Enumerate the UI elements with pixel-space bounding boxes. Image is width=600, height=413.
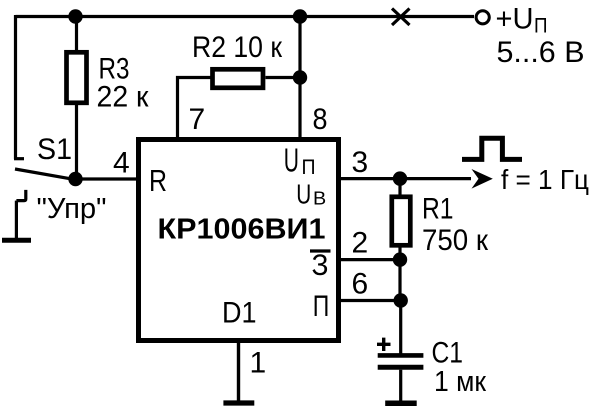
label Uv pin name (296, 179, 326, 210)
ground (switch) (2, 238, 31, 243)
svg-text:S1: S1 (37, 133, 72, 166)
wire pin 2 (340, 258, 400, 261)
label S1 (37, 133, 72, 166)
terminal circle +Un (476, 11, 489, 24)
svg-text:"Упр": "Упр" (37, 193, 107, 225)
label Z-bar pin name (310, 249, 331, 282)
label +Un (496, 3, 548, 38)
node junction pin2 / R1 (393, 252, 407, 266)
svg-text:КР1006ВИ1: КР1006ВИ1 (158, 214, 326, 246)
pin number 1 (250, 346, 267, 379)
svg-text:750 к: 750 к (422, 224, 489, 257)
pin number 6 (352, 268, 369, 301)
svg-text:U: U (296, 179, 311, 210)
pin number 2 (352, 227, 369, 260)
node junction switch / R3 / pin4 (68, 172, 82, 186)
wire pin 7 (178, 78, 212, 140)
svg-text:R2 10 к: R2 10 к (192, 31, 283, 64)
svg-text:R1: R1 (422, 193, 454, 226)
svg-text:В: В (313, 189, 326, 209)
svg-text:4: 4 (113, 147, 130, 180)
svg-text:П: П (313, 290, 330, 323)
label Un pin name (284, 142, 316, 179)
wire pin 3 output (340, 177, 471, 180)
svg-text:C1: C1 (432, 337, 464, 370)
pin number 7 (189, 103, 206, 136)
label KR1006VI1 (158, 214, 326, 246)
label C1 value (432, 337, 487, 399)
svg-text:6: 6 (352, 268, 369, 301)
label R3 value (97, 52, 150, 113)
svg-text:U: U (284, 142, 299, 179)
label "Upr" (37, 193, 107, 225)
svg-text:+U: +U (496, 3, 534, 36)
label P pin name (313, 290, 330, 323)
svg-text:5...6 В: 5...6 В (497, 36, 585, 69)
wire pin 8 (298, 17, 301, 140)
wire R1 to C1 bus (398, 260, 402, 354)
label R2 value (192, 31, 283, 64)
svg-text:1 мк: 1 мк (434, 366, 486, 398)
svg-text:22 к: 22 к (97, 81, 150, 114)
label 5...6 V (497, 36, 585, 69)
ground (C1) (385, 401, 417, 407)
svg-text:З: З (312, 249, 329, 282)
svg-text:f = 1 Гц: f = 1 Гц (501, 164, 589, 195)
label R pin name (149, 163, 167, 198)
pin number 8 (313, 103, 328, 136)
capacitor C1 (378, 355, 424, 401)
svg-text:П: П (534, 15, 548, 38)
pin number 3 (352, 146, 369, 179)
arrow output (472, 169, 493, 189)
wire top rail (16, 15, 475, 18)
switch S1 (14, 159, 75, 238)
svg-text:3: 3 (352, 146, 369, 179)
svg-text:1: 1 (250, 346, 267, 379)
node junction top pin8 (293, 9, 307, 23)
polarity plus C1 (377, 338, 391, 351)
node junction pin6 / C1 (394, 293, 408, 307)
wire pin 6 (340, 299, 401, 302)
IC D1 timer chip body KR1006VI1 (139, 140, 339, 341)
svg-text:8: 8 (313, 103, 328, 136)
wire pin 4 (76, 177, 138, 180)
node junction R2 / pin8 (293, 70, 307, 84)
svg-text:П: П (302, 156, 316, 179)
pulse waveform symbol (462, 138, 522, 159)
label f = 1 Hz (501, 164, 589, 195)
svg-text:R: R (149, 163, 167, 198)
X break mark on supply wire (392, 9, 410, 26)
node junction top R3 (68, 9, 82, 23)
wire left rail (14, 15, 17, 159)
resistor R2 (213, 69, 301, 88)
resistor R1 (392, 179, 411, 260)
pin number 4 (113, 147, 130, 180)
label D1 (222, 297, 257, 330)
label R1 value (422, 193, 489, 258)
svg-text:2: 2 (352, 227, 369, 260)
svg-text:D1: D1 (222, 297, 257, 330)
node junction pin3 / R1 (393, 171, 407, 185)
wire pin 1 (237, 341, 240, 401)
resistor R3 (67, 17, 87, 180)
svg-text:7: 7 (189, 103, 206, 136)
ground (pin 1) (223, 400, 254, 405)
